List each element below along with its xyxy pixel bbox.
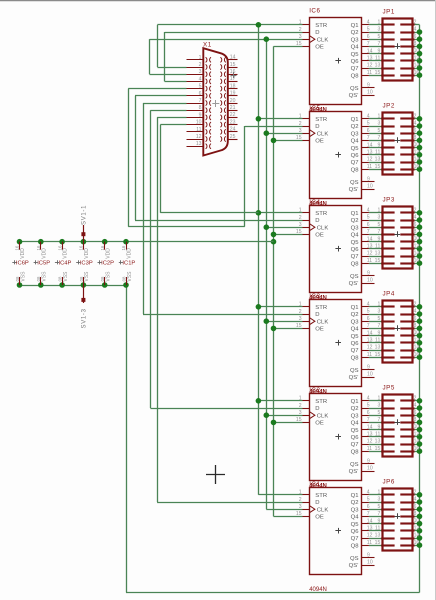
X1 pin 16 stub [228, 74, 238, 76]
svg-text:9: 9 [377, 142, 380, 148]
wire IC3 Q8 to JP4 [369, 357, 383, 359]
IC2 QS' stub pin 10 [362, 471, 375, 473]
X1 pin 22 contact arcs [220, 115, 221, 120]
junction JP3 bus row 4 [417, 232, 423, 238]
svg-text:2: 2 [299, 27, 302, 33]
IC6 pin 15 (OE) stub [303, 46, 310, 48]
wire JP1 even pin to bus [415, 46, 420, 48]
JP2 even pin dash row 3 [400, 132, 414, 134]
wire IC6 Q1 to JP1 [369, 24, 383, 26]
IC3 clock wedge [310, 318, 315, 325]
junction JP4 bus row 1 [417, 304, 423, 310]
IC2 QS stub pin 9 [362, 463, 375, 465]
X1 pin 9 contact arcs [206, 115, 207, 120]
svg-text:6: 6 [414, 316, 417, 322]
junction STR IC3 [256, 210, 262, 216]
wire JP5 even pin to bus [415, 400, 420, 402]
svg-text:OE: OE [315, 139, 324, 145]
IC4 origin cross [335, 248, 341, 250]
svg-text:QS: QS [350, 180, 359, 186]
svg-text:1: 1 [377, 114, 380, 120]
IC6 pin 1 (STR) stub [303, 24, 310, 26]
wire IC5 Q2 to JP2 [369, 126, 383, 128]
IC6 Q7 stub [362, 68, 369, 70]
svg-text:11: 11 [375, 150, 380, 156]
JP1 odd pin dash row 1 [381, 23, 394, 25]
JP2 odd pin dash row 7 [381, 161, 394, 163]
svg-text:2: 2 [414, 207, 417, 213]
JP6 odd pin dash row 4 [381, 515, 394, 517]
svg-text:Q3: Q3 [351, 507, 360, 513]
svg-text:9: 9 [367, 459, 370, 465]
IC2 Q3 stub [362, 415, 369, 417]
wire JP2 even pin to bus [415, 162, 420, 164]
svg-text:Q5: Q5 [351, 522, 360, 528]
IC3 Q2 stub [362, 314, 369, 316]
svg-text:Q6: Q6 [351, 435, 360, 441]
svg-text:Q2: Q2 [351, 406, 359, 412]
JP3 origin cross [395, 234, 401, 236]
svg-text:JP3: JP3 [383, 196, 395, 203]
wire JP3 even pin to bus [415, 220, 420, 222]
IC3 pin 2 (D) stub [303, 314, 310, 316]
svg-text:OE: OE [315, 327, 324, 333]
JP5 odd pin dash row 4 [381, 421, 394, 423]
IC2 pin 1 (STR) stub [303, 400, 310, 402]
junction JP1 bus row 7 [417, 65, 423, 71]
STR bus vertical [258, 25, 260, 495]
wire JP4 even pin to bus [415, 357, 420, 359]
JP4 odd pin dash row 3 [381, 320, 394, 322]
svg-text:QS’: QS’ [349, 281, 359, 287]
svg-text:VDD: VDD [20, 248, 26, 259]
junction JP5 bus row 2 [417, 405, 423, 411]
junction JP2 bus row 1 [417, 116, 423, 122]
JP5 odd pin dash row 6 [381, 435, 394, 437]
junction JP6 bus row 3 [417, 506, 423, 512]
wire IC5 Q7 to JP2 [369, 162, 383, 164]
svg-text:Q4: Q4 [351, 45, 360, 51]
wire JP5 even pin to bus [415, 415, 420, 417]
wire JP4 even pin to bus [415, 306, 420, 308]
JP1 even pin dash row 1 [400, 23, 414, 25]
wire JP1 even pin to bus [415, 39, 420, 41]
junction OE IC2 [271, 138, 277, 144]
IC3 Q1 stub [362, 306, 369, 308]
wire JP5 even pin to bus [415, 451, 420, 453]
X1 pin 21 stub [228, 110, 238, 112]
svg-text:14: 14 [414, 439, 420, 445]
IC 1 body 4094N [310, 488, 362, 575]
svg-text:QS: QS [350, 86, 359, 92]
svg-text:3: 3 [377, 497, 380, 503]
IC6 Q3 stub [362, 39, 369, 41]
wire JP1 even pin to bus [415, 68, 420, 70]
svg-text:3: 3 [199, 69, 202, 75]
svg-text:8: 8 [414, 417, 417, 423]
IC5 Q3 stub [362, 133, 369, 135]
STR tap IC6 [258, 494, 302, 496]
svg-text:Q1: Q1 [351, 23, 359, 29]
svg-text:9: 9 [367, 177, 370, 183]
svg-text:6: 6 [414, 128, 417, 134]
X1 pin 6 stub [187, 95, 204, 97]
svg-text:IC6P: IC6P [16, 261, 29, 267]
svg-text:16: 16 [230, 69, 236, 75]
svg-text:8: 8 [414, 135, 417, 141]
X1 pin 10 contact arcs [206, 122, 207, 127]
IC2 pin 15 (OE) stub [303, 422, 310, 424]
IC5 Q8 stub [362, 169, 369, 171]
svg-text:QS’: QS’ [349, 93, 359, 99]
power symbol IC6P VSS pin [19, 277, 21, 285]
IC2 Q2 stub [362, 408, 369, 410]
X1 pin 23 contact arcs [220, 122, 221, 127]
svg-text:CLK: CLK [317, 225, 329, 231]
IC1 pin 2 (D) stub [303, 502, 310, 504]
wire JP3 even pin to bus [415, 227, 420, 229]
OE tap IC2 [274, 140, 303, 142]
svg-text:1: 1 [299, 20, 302, 26]
svg-text:14: 14 [367, 330, 373, 336]
IC 5 body 4094N [310, 112, 362, 199]
svg-text:CLK: CLK [317, 507, 329, 513]
junction IC5P VSS [38, 282, 44, 288]
svg-text:OE: OE [315, 233, 324, 239]
svg-text:Q8: Q8 [351, 73, 360, 79]
JP1 odd pin dash row 8 [381, 74, 394, 76]
svg-text:7: 7 [367, 41, 370, 47]
junction JP1 bus row 8 [417, 72, 423, 78]
svg-text:2: 2 [414, 19, 417, 25]
JP1 odd pin dash row 6 [381, 59, 394, 61]
svg-text:11: 11 [196, 127, 201, 133]
net D3: X1 pin6 to IC4 data in [135, 95, 187, 97]
X1 pin 24 contact arcs [220, 129, 221, 134]
svg-text:16: 16 [414, 540, 420, 546]
svg-text:IC1P: IC1P [122, 261, 135, 267]
connector JP3 body [383, 207, 413, 269]
IC5 Q4 stub [362, 140, 369, 142]
IC1 Q4 stub [362, 516, 369, 518]
svg-text:4: 4 [367, 490, 370, 496]
svg-text:VSS: VSS [20, 271, 26, 282]
svg-text:Q2: Q2 [351, 30, 359, 36]
X1 gate2 origin cross [231, 75, 237, 77]
svg-text:14: 14 [414, 533, 420, 539]
IC2 pin 2 (D) stub [303, 408, 310, 410]
svg-text:CLK: CLK [317, 413, 329, 419]
IC4 Q8 stub [362, 263, 369, 265]
svg-text:10: 10 [367, 372, 373, 378]
wire JP5 even pin to bus [415, 429, 420, 431]
junction JP5 bus row 5 [417, 427, 423, 433]
IC6 Q8 stub [362, 75, 369, 77]
svg-text:7: 7 [367, 229, 370, 235]
svg-text:4094N: 4094N [309, 587, 327, 593]
svg-text:10: 10 [367, 90, 373, 96]
svg-text:9: 9 [367, 83, 370, 89]
IC 2 body 4094N [310, 394, 362, 481]
svg-text:13: 13 [367, 338, 373, 344]
svg-text:13: 13 [375, 157, 381, 163]
net OE bus vertical tied to VDD [273, 46, 275, 516]
svg-text:JP1: JP1 [383, 8, 395, 15]
svg-text:11: 11 [375, 56, 380, 62]
svg-text:10: 10 [196, 120, 202, 126]
svg-text:Q5: Q5 [351, 334, 360, 340]
net D1: X1 pin4 to IC6 data in [165, 81, 187, 83]
power symbol IC2P VDD pin [104, 242, 106, 250]
svg-text:1: 1 [377, 490, 380, 496]
JP2 even pin dash row 2 [400, 125, 414, 127]
X1 pin 7 contact arcs [206, 100, 207, 105]
JP1 even pin dash row 3 [400, 38, 414, 40]
svg-text:Q8: Q8 [351, 449, 360, 455]
JP2 even pin dash row 4 [400, 139, 414, 141]
svg-text:VSS: VSS [42, 271, 48, 282]
junction JP6 bus row 8 [417, 542, 423, 548]
junction IC4P VDD [59, 239, 65, 245]
svg-text:Q6: Q6 [351, 341, 360, 347]
connector JP6 body [383, 489, 413, 551]
svg-text:6: 6 [367, 128, 370, 134]
wire IC2 Q1 to JP5 [369, 400, 383, 402]
IC5 Q6 stub [362, 154, 369, 156]
svg-text:2: 2 [299, 121, 302, 127]
svg-text:1: 1 [299, 396, 302, 402]
JP4 odd pin dash row 6 [381, 341, 394, 343]
wire JP5 even pin to bus [415, 444, 420, 446]
wire IC3 Q7 to JP4 [369, 350, 383, 352]
X1 pin 21 contact arcs [220, 108, 221, 113]
svg-text:13: 13 [367, 56, 373, 62]
IC 3 body 4094N [310, 300, 362, 387]
svg-text:6: 6 [367, 222, 370, 228]
svg-text:16: 16 [57, 245, 62, 250]
svg-text:23: 23 [230, 119, 236, 125]
CLK tap IC5 [266, 415, 302, 417]
svg-text:2: 2 [414, 395, 417, 401]
svg-text:Q5: Q5 [351, 428, 360, 434]
svg-text:13: 13 [375, 533, 381, 539]
svg-text:3: 3 [377, 27, 380, 33]
IC1 Q1 stub [362, 494, 369, 496]
svg-text:08: 08 [15, 276, 20, 281]
IC1 QS stub pin 9 [362, 557, 375, 559]
svg-text:5: 5 [199, 84, 202, 90]
wire IC5 Q6 to JP2 [369, 154, 383, 156]
svg-text:5: 5 [367, 403, 370, 409]
X1 pin 7 stub [187, 103, 204, 105]
JP4 even pin dash row 8 [400, 356, 414, 358]
svg-text:VSS: VSS [84, 271, 90, 282]
net D2: X1 pin5 down around to IC5 data in [128, 88, 186, 90]
junction CLK IC5 [264, 412, 270, 418]
IC1 Q3 stub [362, 509, 369, 511]
JP2 odd pin dash row 4 [381, 139, 394, 141]
svg-text:D: D [315, 312, 319, 318]
svg-text:5: 5 [367, 121, 370, 127]
X1 pin 25 contact arcs [220, 136, 221, 141]
JP1 even pin dash row 6 [400, 59, 414, 61]
svg-text:22: 22 [230, 112, 236, 118]
svg-text:5: 5 [377, 504, 380, 510]
svg-text:VDD: VDD [41, 248, 47, 259]
svg-text:1: 1 [377, 208, 380, 214]
JP4 origin cross [395, 328, 401, 330]
JP5 even pin dash row 1 [400, 399, 414, 401]
svg-text:16: 16 [414, 446, 420, 452]
JP6 odd pin dash row 6 [381, 529, 394, 531]
wire JP1 even pin to bus [415, 24, 420, 26]
power symbol IC3P VDD pin [83, 242, 85, 250]
X1 pin 12 contact arcs [206, 136, 207, 141]
junction JP2 bus row 8 [417, 166, 423, 172]
junction OE IC4 [271, 326, 277, 332]
JP4 even pin dash row 5 [400, 334, 414, 336]
JP common bus vertical [419, 25, 421, 593]
IC6 QS' stub pin 10 [362, 95, 375, 97]
svg-text:8: 8 [414, 323, 417, 329]
junction IC2P VDD [102, 239, 108, 245]
svg-text:15: 15 [296, 41, 302, 47]
svg-text:15: 15 [375, 258, 381, 264]
wire JP1 even pin to bus [415, 53, 420, 55]
IC6 origin cross [335, 60, 341, 62]
X1 pin 15 contact arcs [220, 64, 221, 69]
svg-text:Q2: Q2 [351, 124, 359, 130]
svg-text:4: 4 [414, 309, 417, 315]
svg-text:12: 12 [414, 55, 420, 61]
IC6 Q1 stub [362, 24, 369, 26]
JP6 odd pin dash row 8 [381, 544, 394, 546]
svg-text:3: 3 [377, 215, 380, 221]
svg-text:6: 6 [414, 34, 417, 40]
svg-text:15: 15 [375, 446, 381, 452]
wire JP6 even pin to bus [415, 502, 420, 504]
svg-text:Q1: Q1 [351, 305, 359, 311]
svg-text:5: 5 [377, 316, 380, 322]
junction JP1 bus row 2 [417, 29, 423, 35]
wire JP2 even pin to bus [415, 147, 420, 149]
svg-text:11: 11 [367, 164, 372, 170]
IC5 pin 2 (D) stub [303, 126, 310, 128]
wire IC1 Q3 to JP6 [369, 509, 383, 511]
JP5 even pin dash row 6 [400, 435, 414, 437]
junction JP4 bus row 2 [417, 311, 423, 317]
wire JP3 even pin to bus [415, 248, 420, 250]
wire JP5 even pin to bus [415, 422, 420, 424]
svg-text:14: 14 [367, 236, 373, 242]
svg-text:Q5: Q5 [351, 240, 360, 246]
svg-text:5: 5 [367, 497, 370, 503]
svg-text:10: 10 [414, 518, 420, 524]
X1 pin 17 stub [228, 81, 238, 83]
VSS rail to bottom ground loop [126, 285, 128, 593]
wire JP1 even pin to bus [415, 75, 420, 77]
svg-text:Q3: Q3 [351, 131, 360, 137]
svg-text:1: 1 [299, 208, 302, 214]
svg-text:25: 25 [230, 134, 236, 140]
OE tap IC4 [274, 328, 303, 330]
IC1 pin 15 (OE) stub [303, 516, 310, 518]
wire IC1 Q1 to JP6 [369, 494, 383, 496]
svg-text:QS: QS [350, 556, 359, 562]
junction STR IC2 [256, 116, 262, 122]
svg-text:7: 7 [367, 511, 370, 517]
IC4 clock wedge [310, 224, 315, 231]
svg-text:Q3: Q3 [351, 225, 360, 231]
svg-text:3: 3 [377, 403, 380, 409]
svg-text:11: 11 [367, 352, 372, 358]
junction OE-VDD [271, 239, 277, 245]
wire JP6 even pin to bus [415, 538, 420, 540]
svg-text:CLK: CLK [317, 319, 329, 325]
svg-text:12: 12 [196, 134, 202, 140]
connector JP2 body [383, 113, 413, 175]
IC2 Q6 stub [362, 436, 369, 438]
svg-text:5: 5 [367, 215, 370, 221]
svg-text:13: 13 [375, 251, 381, 257]
svg-text:4: 4 [367, 20, 370, 26]
svg-text:16: 16 [414, 258, 420, 264]
svg-text:12: 12 [414, 431, 420, 437]
svg-text:VDD: VDD [127, 248, 133, 259]
junction JP1 bus row 6 [417, 58, 423, 64]
JP2 odd pin dash row 1 [381, 117, 394, 119]
svg-text:13: 13 [375, 439, 381, 445]
wire JP4 even pin to bus [415, 314, 420, 316]
wire IC3 Q5 to JP4 [369, 335, 383, 337]
svg-text:7: 7 [367, 323, 370, 329]
svg-text:Q3: Q3 [351, 319, 360, 325]
IC3 Q4 stub [362, 328, 369, 330]
svg-text:Q8: Q8 [351, 261, 360, 267]
svg-text:Q6: Q6 [351, 153, 360, 159]
junction JP6 bus row 4 [417, 514, 423, 520]
svg-text:12: 12 [414, 243, 420, 249]
JP2 odd pin dash row 2 [381, 125, 394, 127]
JP4 odd pin dash row 5 [381, 334, 394, 336]
JP3 even pin dash row 4 [400, 233, 414, 235]
CLK bus vertical [266, 39, 268, 509]
svg-text:08: 08 [36, 276, 41, 281]
svg-text:14: 14 [367, 48, 373, 54]
wire JP1 even pin to bus [415, 60, 420, 62]
svg-text:7: 7 [199, 98, 202, 104]
junction STR IC5 [256, 398, 262, 404]
JP6 even pin dash row 8 [400, 544, 414, 546]
JP3 even pin dash row 6 [400, 247, 414, 249]
IC5 pin 15 (OE) stub [303, 140, 310, 142]
svg-text:STR: STR [315, 23, 327, 29]
OE tap IC3 [274, 234, 303, 236]
X1 pin 22 stub [228, 117, 238, 119]
JP6 even pin dash row 5 [400, 522, 414, 524]
IC1 Q5 stub [362, 523, 369, 525]
window right border [435, 0, 436, 600]
wire JP4 even pin to bus [415, 321, 420, 323]
svg-text:3: 3 [377, 309, 380, 315]
svg-text:10: 10 [367, 184, 373, 190]
junction JP3 bus row 3 [417, 224, 423, 230]
junction CLK top [264, 36, 270, 42]
JP2 odd pin dash row 8 [381, 168, 394, 170]
wire IC4 Q2 to JP3 [369, 220, 383, 222]
svg-text:16: 16 [36, 245, 41, 250]
VSS power rail [20, 285, 127, 287]
